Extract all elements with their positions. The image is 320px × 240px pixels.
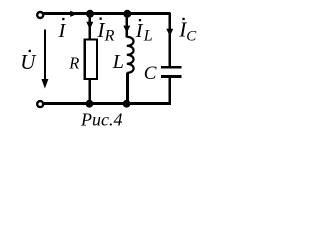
wire right vertical (bottom) (169, 77, 172, 105)
current arrow I on top wire (70, 11, 78, 17)
svg-text:Рис.4: Рис.4 (80, 110, 122, 130)
voltage arrow U (44, 30, 46, 82)
wire right vertical (top) (169, 13, 172, 67)
label I_C (dot) (182, 18, 184, 20)
capacitor C plate bottom (161, 75, 182, 78)
svg-text:R: R (104, 27, 115, 44)
svg-text:L: L (143, 27, 153, 44)
junction dot bottom L (123, 100, 131, 108)
current arrow I_L (123, 26, 130, 33)
label I_L (dot) (139, 19, 141, 21)
bottom wire (41, 102, 171, 105)
svg-text:U: U (20, 50, 37, 74)
current arrow I_R (86, 22, 93, 30)
svg-text:R: R (68, 54, 79, 73)
capacitor C plate top (161, 66, 182, 69)
label U (dot) (29, 50, 31, 52)
inductor L coil (127, 37, 134, 73)
wire L branch bottom (126, 73, 129, 104)
wire R branch top (89, 14, 92, 40)
svg-text:L: L (112, 51, 124, 73)
current arrow I_C (166, 29, 173, 36)
svg-text:C: C (186, 28, 197, 44)
label I_R (dot) (100, 18, 102, 20)
junction dot bottom R (86, 100, 94, 108)
terminal (bottom left) (37, 101, 43, 107)
wire R branch bottom (89, 80, 92, 104)
junction dot top L (123, 10, 131, 18)
junction dot top R (86, 10, 94, 18)
terminal (top left) (37, 12, 43, 18)
top wire (41, 12, 170, 15)
label I (dot) (62, 18, 64, 20)
svg-text:C: C (144, 63, 157, 84)
svg-text:I: I (58, 20, 67, 42)
wire L branch top (126, 14, 129, 38)
resistor R box (85, 40, 97, 79)
svg-text:I: I (135, 20, 144, 42)
